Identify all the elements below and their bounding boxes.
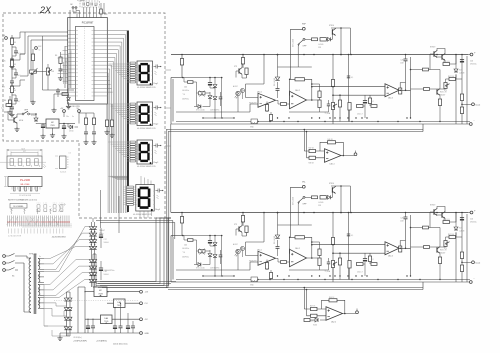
wire RSP down	[290, 29, 302, 79]
resistor R101	[180, 59, 183, 66]
crystal oscillator box ZQ1	[77, 0, 100, 7]
ground G14	[109, 133, 114, 137]
note text	[8, 199, 37, 202]
digit sketch 8888	[37, 203, 65, 213]
svg-text:1000.0: 1000.0	[104, 274, 109, 276]
svg-text:KD209: KD209	[31, 115, 36, 117]
ground G11	[83, 140, 88, 144]
transistor VT12 KT819	[442, 53, 445, 60]
ground Gin3	[9, 113, 14, 117]
svg-text:250/P50u: 250/P50u	[182, 257, 189, 259]
resistor R248	[311, 314, 318, 317]
trimmer R218	[199, 249, 206, 255]
diode VD265	[315, 318, 318, 322]
svg-text:0.5: 0.5	[69, 153, 71, 155]
transistor VT21 KT819	[434, 208, 437, 215]
label DD vertical RSP	[293, 39, 295, 47]
display mech side view	[55, 156, 69, 169]
resistor R238i	[368, 256, 371, 262]
svg-text:T1,45A: T1,45A	[325, 270, 331, 273]
capacitor C8b	[56, 90, 60, 92]
pot R143	[444, 83, 450, 89]
terminal +out 1	[470, 53, 473, 56]
resistor R147	[309, 149, 316, 152]
svg-text:1 2.54 2.54 31.8: 1 2.54 2.54 31.8	[19, 195, 31, 197]
regulator DA6 7828	[94, 287, 107, 297]
svg-text:HL-F5340 SB04/1C015: HL-F5340 SB04/1C015	[137, 166, 156, 168]
resistor R124	[265, 105, 268, 112]
wire vertical pair 2	[406, 213, 411, 277]
resistor R226	[281, 261, 287, 264]
wire out rail 2	[450, 213, 457, 223]
wire display4 top drops	[141, 176, 151, 185]
svg-text:100.0 100.0 10u: 100.0 100.0 10u	[113, 344, 127, 346]
display mech ticks	[43, 164, 46, 168]
capacitor Cin1b	[10, 59, 14, 61]
op-amp DA2.2	[290, 249, 307, 267]
resistor R141e	[438, 99, 441, 106]
transistor VT13	[239, 68, 242, 75]
wire out rail 1	[450, 55, 457, 65]
channel 1 bottom rails	[166, 122, 470, 132]
resistor R247	[311, 307, 318, 310]
svg-text:* 16: * 16	[182, 94, 185, 96]
svg-text:DA2.4: DA2.4	[331, 321, 336, 324]
capacitor C23	[126, 326, 130, 329]
display HG2 caption	[137, 128, 156, 130]
resistor R241 0.51	[443, 221, 450, 224]
svg-text:C1: C1	[2, 39, 4, 41]
capacitor Cin2b	[10, 81, 14, 83]
diode group VD26-31	[64, 298, 68, 301]
wire cell 2	[11, 57, 13, 60]
display 4 dp wiring	[156, 189, 164, 199]
label 1N4007	[99, 230, 105, 232]
svg-text:KT5 LL4140: KT5 LL4140	[196, 268, 205, 270]
wire crystal drops	[73, 3, 107, 18]
svg-text:LL4140: LL4140	[318, 44, 323, 46]
display mech dimensions	[7, 149, 42, 156]
resistor R103	[245, 68, 248, 75]
svg-text:/M6407: /M6407	[440, 253, 445, 255]
svg-text:DIG PANEL: DIG PANEL	[13, 205, 24, 208]
capacitor Cin1a	[14, 51, 18, 53]
pin numbers	[8, 236, 21, 238]
capacitor C228	[404, 217, 408, 219]
capacitor C9	[84, 132, 88, 134]
resistor R203	[245, 226, 248, 233]
svg-text:HL-F5340 SB04/1C015: HL-F5340 SB04/1C015	[137, 128, 156, 130]
terminal DC	[35, 47, 38, 50]
ground G13	[104, 130, 109, 134]
wire cells to mcu	[20, 32, 68, 102]
svg-text:LL4140: LL4140	[318, 202, 323, 204]
capacitor C120	[460, 60, 464, 63]
resistor Rsw2 RSP	[320, 38, 326, 41]
capacitor C18	[99, 268, 103, 271]
input cell label RG	[2, 87, 5, 89]
zener VD110	[275, 77, 279, 80]
wire da13 io	[370, 83, 411, 98]
svg-text:ZQ 4MHz: ZQ 4MHz	[77, 0, 85, 2]
wire harness vertical right	[156, 217, 171, 219]
label 10v 5v	[66, 116, 69, 118]
svg-text:DA1.3: DA1.3	[388, 97, 393, 100]
resistor R141 0.51	[443, 63, 450, 66]
resistor R126	[281, 103, 287, 106]
wire vt23	[242, 232, 247, 236]
svg-text:4D-XXXXXXXX: 4D-XXXXXXXX	[52, 237, 67, 239]
resistor R265	[304, 319, 310, 322]
svg-text:KT5 LL4140: KT5 LL4140	[196, 110, 205, 112]
svg-text:MC8577P: MC8577P	[249, 103, 257, 105]
wire d503	[67, 124, 69, 128]
svg-text:VKL: VKL	[302, 182, 306, 184]
wire sw to reg	[29, 113, 36, 115]
svg-text:D9 LL4140: D9 LL4140	[274, 78, 276, 86]
transistor VT5	[14, 117, 17, 124]
svg-text:C34 4,7: C34 4,7	[357, 272, 363, 274]
svg-text:DD LL4148: DD LL4148	[293, 39, 295, 47]
resistor R117	[188, 81, 194, 84]
svg-text:9v: 9v	[39, 269, 41, 271]
svg-text:DA1.2: DA1.2	[295, 89, 300, 92]
resistor network RN3	[127, 141, 137, 162]
channel 2 rail ticks	[181, 212, 463, 214]
display HG3	[137, 140, 159, 164]
svg-text:2,2k: 2,2k	[1, 108, 4, 110]
resistor R139	[423, 68, 429, 71]
wire psu rails	[60, 287, 140, 336]
wire under mcu	[54, 93, 69, 95]
resistor Rsw2 VKL	[320, 196, 326, 199]
resistor network RN2	[127, 103, 137, 124]
resistor R144	[460, 94, 463, 101]
svg-text:C/K10: C/K10	[69, 131, 74, 133]
dotted rail	[54, 300, 139, 302]
resistor R237	[399, 246, 402, 252]
regulator DA4 MC7805	[46, 119, 59, 128]
resistor R230	[331, 238, 334, 245]
svg-text:R46 1K: R46 1K	[328, 139, 334, 141]
svg-text:4,7: 4,7	[18, 75, 20, 77]
wire da14	[304, 130, 347, 158]
terminal OK b	[75, 6, 77, 8]
svg-text:VD1: VD1	[459, 228, 462, 230]
terminal minus 2	[469, 281, 472, 284]
svg-text:MC8577P: MC8577P	[249, 261, 257, 263]
svg-text:C20: C20	[470, 61, 473, 63]
wire vd9 1	[237, 96, 239, 112]
display mech outline	[0, 156, 46, 169]
svg-text:R41 0.51: R41 0.51	[443, 219, 450, 221]
wire indicator cluster 2	[183, 236, 222, 277]
display HG4	[136, 185, 161, 212]
terminal Uout 2	[472, 261, 475, 264]
wire feed rb	[79, 112, 94, 114]
wire chains to lower diodes	[64, 301, 66, 336]
resistor R244	[460, 252, 463, 259]
diode VDsw RSP	[328, 37, 331, 41]
resistor R217	[188, 239, 194, 242]
wire cell out 2	[12, 54, 25, 60]
resistor R132b	[318, 100, 321, 108]
connector footprint PL-2106	[4, 177, 42, 198]
capacitor C15	[347, 76, 350, 78]
wire long vertical A 1	[332, 55, 334, 125]
capacitor C24	[131, 326, 135, 328]
diode VD2v	[34, 118, 38, 121]
pot R133	[331, 103, 337, 110]
trimmer R118	[199, 91, 206, 97]
terminal VKL	[302, 185, 305, 188]
svg-text:KT816: KT816	[329, 183, 334, 185]
svg-text:1 2 3 4 5 6 7 8 9: 1 2 3 4 5 6 7 8 9	[8, 236, 21, 238]
label 2X	[39, 5, 52, 15]
resistor Rsw1 VKL	[312, 196, 318, 199]
svg-text:DA1.2: DA1.2	[295, 247, 300, 250]
svg-text:MC: MC	[51, 122, 55, 124]
diode VD2 KD503	[70, 125, 73, 129]
wire c45 leads	[183, 78, 185, 83]
transistor VT11 KT819	[434, 50, 437, 57]
regulator DA5 78L2	[114, 299, 126, 308]
capacitor C234	[363, 259, 367, 262]
wire vert mid	[42, 36, 44, 90]
input cell label AuX	[2, 60, 6, 63]
svg-text:0,68: 0,68	[400, 221, 403, 223]
svg-text:C34 4,7: C34 4,7	[357, 114, 363, 116]
capacitor C248 label	[210, 268, 219, 270]
resistor R140	[424, 88, 430, 91]
capacitor C146	[208, 83, 212, 86]
wire mcu left pin drops	[64, 50, 72, 94]
capacitor Cin2a	[14, 73, 18, 75]
wire darlington 1	[430, 49, 445, 70]
wire dashed box to channel links	[165, 70, 171, 146]
svg-text:MOH: MOH	[19, 120, 24, 122]
mains terminal X1	[3, 255, 6, 258]
svg-text:Ch1: Ch1	[2, 35, 5, 37]
resistor network RN4	[123, 186, 136, 205]
display HG1	[137, 61, 159, 85]
led bar red line	[8, 221, 71, 223]
resistor R245	[460, 265, 463, 272]
wire reg out	[59, 123, 75, 125]
resistor R136h	[357, 105, 364, 108]
terminal minus 1	[469, 123, 472, 126]
ground Gin1	[9, 65, 14, 69]
svg-text:DA1.4: DA1.4	[330, 163, 335, 166]
resistor R202	[241, 216, 244, 223]
wire secondary harness	[44, 227, 89, 337]
diode VD18	[198, 105, 201, 109]
wire long vertical B 1	[348, 55, 350, 122]
led indicator VD29a	[233, 243, 240, 256]
led indicator VD29b	[241, 247, 245, 251]
display mech digits	[10, 159, 40, 167]
wire bus to resistor network 2	[109, 104, 129, 119]
svg-text:0,1: 0,1	[351, 77, 353, 79]
svg-text:100.0/16u: 100.0/16u	[182, 90, 189, 92]
svg-text:R43 4,7K: R43 4,7K	[440, 92, 448, 94]
resistor R234	[338, 258, 341, 265]
wire bus bundle to display4	[109, 176, 128, 179]
svg-text:1N4007: 1N4007	[99, 230, 105, 232]
svg-text:2X: 2X	[39, 5, 52, 15]
resistor R201	[180, 217, 183, 224]
svg-text:LL4148: LL4148	[459, 73, 464, 75]
svg-text:/M6407: /M6407	[440, 95, 445, 97]
led indicator VD19b	[241, 89, 245, 93]
svg-text:KT819: KT819	[430, 47, 435, 49]
wire supply drop 1	[246, 55, 265, 113]
svg-text:1000.0: 1000.0	[104, 242, 109, 244]
op-amp DA1.1	[258, 93, 276, 107]
resistor R236h	[357, 263, 364, 266]
resistor R138i	[368, 98, 371, 104]
svg-text:R6: R6	[55, 55, 57, 57]
svg-text:C20: C20	[470, 219, 473, 221]
svg-text:R41 0.51: R41 0.51	[443, 61, 450, 63]
svg-text:C18: C18	[104, 271, 107, 273]
svg-text:R43 4,7K: R43 4,7K	[440, 250, 448, 252]
svg-text:4,7: 4,7	[18, 101, 20, 103]
ground G12	[91, 140, 96, 144]
resistor R238h	[371, 263, 377, 266]
pot R243	[444, 241, 450, 247]
channel 1 rail ticks	[181, 54, 463, 56]
display HG4 caption	[133, 214, 152, 216]
svg-text:0,1: 0,1	[351, 235, 353, 237]
wire bus MCU right horizontal	[107, 31, 127, 214]
thick segment bus line	[127, 31, 129, 213]
resistor R142 100	[449, 78, 456, 81]
wire psu riser a	[100, 190, 102, 228]
terminal IN out	[140, 318, 143, 321]
wire mid rails 2	[176, 245, 385, 276]
svg-text:DA1.1: DA1.1	[257, 249, 262, 252]
led VD26	[213, 255, 217, 258]
svg-text:9v: 9v	[39, 256, 41, 258]
resistor R242 100	[449, 236, 456, 239]
capacitor C246	[208, 241, 212, 244]
capacitor C133	[327, 104, 330, 106]
wire long vertical B 2	[348, 213, 350, 280]
capacitor C17	[99, 235, 103, 238]
svg-text:R47 1K: R47 1K	[310, 306, 316, 308]
wire cell out 1	[12, 32, 25, 38]
regulator DA6b 7905	[101, 315, 113, 324]
svg-text:R42 100: R42 100	[448, 234, 454, 236]
op-amp DA2.4	[326, 307, 343, 321]
capacitor Cin3b	[10, 107, 14, 109]
channel 2 left edge	[171, 236, 183, 283]
switch S1	[5, 254, 18, 271]
dashed module boundary box	[3, 13, 165, 218]
svg-text:VD1: VD1	[459, 70, 462, 72]
resistor R5	[31, 54, 34, 61]
svg-text:KT816: KT816	[329, 25, 334, 27]
ground G8	[40, 134, 45, 138]
ground G15	[57, 336, 62, 340]
terminal +5V a	[63, 110, 66, 113]
wire mains to transformer	[18, 256, 31, 312]
display 3 dp wiring	[154, 144, 162, 154]
resistor R102	[241, 58, 244, 65]
wire top cluster RSP	[331, 28, 351, 55]
svg-text:250/P50u: 250/P50u	[182, 99, 189, 101]
wire psu to channel horizontals	[96, 221, 176, 288]
terminal +5V out	[140, 290, 143, 293]
terminal da24 out	[356, 311, 359, 314]
resistor R148	[309, 156, 316, 159]
zener VD21 LL4148	[454, 227, 458, 230]
svg-text:50.8: 50.8	[21, 148, 24, 150]
resistor network RN1	[127, 62, 137, 83]
svg-text:NOTE TOLERANCES ±0.5 mm: NOTE TOLERANCES ±0.5 mm	[8, 199, 37, 202]
terminal Ch1	[5, 37, 8, 40]
svg-text:4700/50u: 4700/50u	[470, 222, 477, 224]
svg-text:+5V(PIC/DISP): +5V(PIC/DISP)	[73, 341, 87, 343]
op-amp DA1.3	[385, 84, 399, 97]
ground box 1	[250, 119, 258, 129]
resistor R232	[318, 249, 321, 256]
display 2 dp wiring	[154, 106, 162, 116]
resistor Rin3	[10, 86, 13, 93]
wire cell 3	[11, 83, 13, 86]
capacitor C10	[92, 132, 96, 134]
wire right col 1	[456, 55, 467, 125]
led pin resistors	[11, 208, 52, 214]
resistor R8	[62, 93, 68, 96]
svg-text:LL4148: LL4148	[459, 231, 464, 233]
svg-text:PL-2106: PL-2106	[20, 178, 30, 182]
svg-text:45.7: 45.7	[23, 151, 26, 153]
wire da12 fb	[290, 79, 318, 100]
svg-text:R48 1K: R48 1K	[309, 163, 315, 165]
terminal CU out	[140, 302, 143, 305]
winding labels	[39, 256, 41, 258]
wire supply drop 2	[246, 213, 265, 271]
wire vt14	[439, 70, 441, 89]
svg-text:R46 1K: R46 1K	[329, 297, 335, 299]
ground Gin2	[9, 87, 14, 91]
svg-text:C38: C38	[318, 47, 321, 49]
svg-text:MC: MC	[99, 290, 103, 292]
resistor R146	[328, 141, 336, 144]
channel 1 left edge	[171, 78, 183, 125]
wire uout 1	[462, 103, 472, 105]
svg-text:D9 LL4140: D9 LL4140	[274, 236, 276, 244]
transistor VTsw VKL KT816	[332, 186, 335, 193]
resistor R231	[295, 236, 305, 239]
transformer T1 core	[34, 254, 36, 314]
resistor R131	[295, 78, 305, 81]
wire uout 2	[462, 261, 472, 263]
svg-text:VT3: VT3	[234, 224, 237, 226]
wire display4 bottom stubs	[140, 211, 152, 218]
resistor R132	[318, 91, 321, 98]
svg-text:Uout: Uout	[476, 104, 481, 107]
wire da23 io	[370, 241, 411, 256]
diode VD3	[67, 98, 71, 101]
display 1 dp wiring	[154, 65, 162, 75]
capacitor C148 label	[210, 110, 219, 112]
svg-text:KT819: KT819	[430, 205, 435, 207]
resistor R239	[423, 226, 429, 229]
resistor Rsw1 RSP	[312, 38, 318, 41]
